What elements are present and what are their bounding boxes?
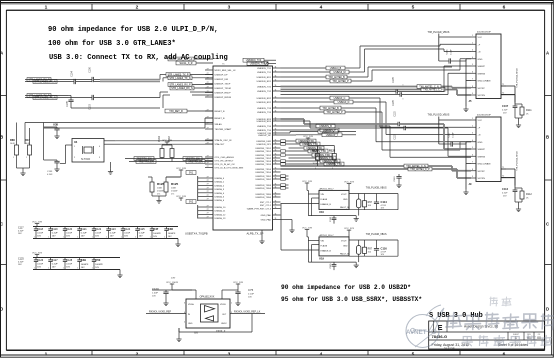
svg-text:TX8_ANTE0_P: TX8_ANTE0_P <box>332 80 349 83</box>
svg-text:ENABLE_B: ENABLE_B <box>321 250 332 253</box>
svg-text:1: 1 <box>164 237 165 239</box>
svg-text:TX8_ANTE2_B: TX8_ANTE2_B <box>322 107 339 110</box>
svg-text:11: 11 <box>275 100 277 102</box>
svg-text:77: 77 <box>207 82 209 84</box>
svg-text:GND_PAD: GND_PAD <box>261 219 272 222</box>
svg-text:C121: C121 <box>81 228 88 231</box>
svg-text:C105: C105 <box>393 100 395 106</box>
svg-text:USB2A_3: USB2A_3 <box>215 188 225 191</box>
svg-text:USB2A_12: USB2A_12 <box>215 213 227 216</box>
svg-text:VCC: VCC <box>478 37 483 39</box>
svg-text:4012310X10P: 4012310X10P <box>477 115 491 117</box>
svg-text:6: 6 <box>503 351 506 357</box>
svg-text:11: 11 <box>275 70 277 72</box>
svg-text:0.1UF: 0.1UF <box>52 263 59 265</box>
svg-text:1: 1 <box>472 35 473 37</box>
svg-text:2: 2 <box>136 5 139 11</box>
svg-text:6: 6 <box>472 154 473 156</box>
svg-text:GND_DRAIN: GND_DRAIN <box>478 163 491 166</box>
svg-text:VIN: VIN <box>321 241 325 243</box>
svg-text:VCC_1V8: VCC_1V8 <box>302 227 313 229</box>
svg-text:8: 8 <box>472 169 473 171</box>
svg-text:VCC_1V8: VCC_1V8 <box>162 140 173 142</box>
svg-text:USB2DN_TXE2: USB2DN_TXE2 <box>255 179 271 181</box>
svg-text:VIN: VIN <box>321 194 325 196</box>
svg-text:C128: C128 <box>66 259 73 262</box>
svg-text:4: 4 <box>320 5 323 11</box>
svg-text:1: 1 <box>92 237 93 239</box>
svg-text:3: 3 <box>472 50 473 52</box>
svg-text:USB2DN_B: USB2DN_B <box>319 125 332 128</box>
svg-text:A: A <box>546 51 549 56</box>
svg-text:OTG_HS_DETECT: OTG_HS_DETECT <box>215 161 235 163</box>
svg-text:C115: C115 <box>395 134 397 140</box>
svg-text:ALPB_TX_SP: ALPB_TX_SP <box>247 232 264 236</box>
svg-text:USB3DN_TX1: USB3DN_TX1 <box>257 72 272 74</box>
svg-text:11: 11 <box>275 66 277 68</box>
svg-text:1: 1 <box>150 237 151 239</box>
svg-text:USB3DN_TX0: USB3DN_TX0 <box>250 62 266 65</box>
svg-text:VCC_3V3: VCC_3V3 <box>32 252 43 254</box>
svg-text:USB2A_13: USB2A_13 <box>215 217 227 220</box>
svg-text:VCC_3V3: VCC_3V3 <box>344 228 355 230</box>
svg-text:OTG_ID_IN_AC_OK: OTG_ID_IN_AC_OK <box>215 163 236 166</box>
svg-text:11: 11 <box>275 75 277 77</box>
svg-text:11: 11 <box>275 149 277 151</box>
svg-text:16V: 16V <box>153 236 157 238</box>
svg-text:2: 2 <box>472 42 473 44</box>
svg-text:VCC_1V8: VCC_1V8 <box>176 168 187 170</box>
svg-text:11: 11 <box>275 195 277 197</box>
svg-text:10V: 10V <box>152 296 156 298</box>
svg-text:SV2: SV2 <box>189 201 194 204</box>
svg-text:77: 77 <box>207 209 209 211</box>
svg-text:TX8_DET_R: TX8_DET_R <box>169 110 183 113</box>
svg-text:16V: 16V <box>139 235 143 237</box>
svg-text:U6: U6 <box>194 331 198 335</box>
svg-text:1%: 1% <box>157 194 160 196</box>
svg-text:USB2DN_TXD2: USB2DN_TXD2 <box>255 158 271 160</box>
svg-text:FAULT_B: FAULT_B <box>340 206 349 209</box>
svg-text:USB3DN_RX3: USB3DN_RX3 <box>257 121 272 123</box>
svg-text:T1: T1 <box>502 84 504 86</box>
svg-text:77: 77 <box>207 138 209 140</box>
svg-text:STR_LANE3_RX_N: STR_LANE3_RX_N <box>171 87 193 90</box>
svg-text:IV-TXCO: IV-TXCO <box>81 159 90 161</box>
svg-text:11: 11 <box>275 213 277 215</box>
svg-text:GND: GND <box>343 246 348 248</box>
svg-text:SLK11_X_R: SLK11_X_R <box>180 62 193 65</box>
svg-text:XXXX_X: XXXX_X <box>216 330 226 333</box>
svg-text:6: 6 <box>472 71 473 73</box>
svg-text:_P: _P <box>477 127 481 129</box>
svg-text:USB2DN_TXD1: USB2DN_TXD1 <box>255 151 271 153</box>
svg-text:0.1UF: 0.1UF <box>18 261 24 263</box>
svg-text:C116: C116 <box>381 246 388 250</box>
svg-text:11: 11 <box>275 128 277 130</box>
svg-text:77: 77 <box>207 155 209 157</box>
svg-text:D: D <box>0 307 3 312</box>
svg-text:16V: 16V <box>95 235 99 237</box>
svg-text:USB3DN_RX2: USB3DN_RX2 <box>257 98 272 100</box>
svg-text:USB2UI_B: USB2UI_B <box>330 67 342 70</box>
svg-text:11: 11 <box>275 162 277 164</box>
svg-text:16V: 16V <box>52 235 56 237</box>
svg-text:USB2DN_DM1: USB2DN_DM1 <box>256 141 271 143</box>
svg-text:USB2DN_DP1: USB2DN_DP1 <box>257 144 272 146</box>
svg-text:XTALIN_OSC_IN: XTALIN_OSC_IN <box>215 139 232 142</box>
svg-text:TRST*RX_EN: TRST*RX_EN <box>138 161 153 164</box>
svg-text:4: 4 <box>320 351 323 357</box>
svg-text:77: 77 <box>207 180 209 182</box>
svg-text:T2: T2 <box>502 175 504 177</box>
svg-text:11: 11 <box>275 183 277 185</box>
svg-text:5: 5 <box>472 64 473 66</box>
svg-text:OTG_ID_B_OTG_MOB_SEN: OTG_ID_B_OTG_MOB_SEN <box>215 168 244 170</box>
svg-text:GND: GND <box>478 59 483 61</box>
svg-text:TX8_ANTE2_P: TX8_ANTE2_P <box>326 111 343 114</box>
svg-text:0.1UF: 0.1UF <box>502 193 508 195</box>
svg-text:FAULT_B: FAULT_B <box>340 253 349 256</box>
svg-text:XTALOUT: XTALOUT <box>215 143 226 146</box>
svg-text:D: D <box>546 307 549 312</box>
svg-text:16V: 16V <box>95 267 99 269</box>
svg-text:SSTXP: SSTXP <box>478 88 486 90</box>
svg-text:11: 11 <box>275 146 277 148</box>
svg-text:USB2UI_C: USB2UI_C <box>334 97 346 100</box>
svg-text:1: 1 <box>121 237 122 239</box>
svg-text:STR_LANE3_TX_N: STR_LANE3_TX_N <box>169 77 190 80</box>
svg-text:X4: X4 <box>74 140 78 144</box>
svg-text:R123: R123 <box>312 149 319 153</box>
svg-text:TX8_ANTE1_C_P: TX8_ANTE1_C_P <box>410 168 430 171</box>
svg-text:16V: 16V <box>168 236 172 238</box>
svg-text:C100: C100 <box>152 287 159 291</box>
svg-text:USB3DN_TX3: USB3DN_TX3 <box>257 108 272 110</box>
svg-text:1: 1 <box>77 268 78 270</box>
svg-text:11: 11 <box>275 106 277 108</box>
svg-text:C125: C125 <box>18 258 24 261</box>
svg-text:11: 11 <box>275 192 277 194</box>
svg-text:1: 1 <box>135 237 136 239</box>
svg-text:SSRXN: SSRXN <box>478 156 486 158</box>
svg-text:1000PF: 1000PF <box>81 264 89 266</box>
svg-text:77: 77 <box>207 159 209 161</box>
svg-text:C122: C122 <box>95 228 102 231</box>
svg-text:0.1UF: 0.1UF <box>124 232 131 234</box>
svg-text:16V: 16V <box>66 266 70 268</box>
svg-text:100K: 100K <box>157 188 163 190</box>
svg-text:VCC: VCC <box>478 120 483 122</box>
svg-text:C117: C117 <box>18 227 24 230</box>
svg-text:11: 11 <box>275 85 277 87</box>
svg-text:00: 00 <box>537 336 541 340</box>
svg-text:1: 1 <box>45 5 48 11</box>
svg-text:USB2A_6: USB2A_6 <box>215 199 225 202</box>
svg-text:1000PF: 1000PF <box>153 233 161 235</box>
svg-text:TESTER_START: TESTER_START <box>215 128 232 131</box>
svg-text:0.1UF: 0.1UF <box>66 232 73 234</box>
svg-text:3: 3 <box>472 133 473 135</box>
svg-text:95 ohm for USB 3.0 USB_SSRX*,: 95 ohm for USB 3.0 USB_SSRX*, USBSSTX* <box>281 296 422 303</box>
svg-text:2: 2 <box>472 125 473 127</box>
svg-text:1: 1 <box>472 118 473 120</box>
svg-text:0.1UF: 0.1UF <box>81 232 88 234</box>
svg-text:R97: R97 <box>368 248 373 251</box>
svg-text:RST_CTL1: RST_CTL1 <box>260 202 272 204</box>
svg-text:U19: U19 <box>319 256 324 260</box>
svg-text:78436-G: 78436-G <box>432 334 448 339</box>
svg-text:GND: GND <box>343 199 348 201</box>
svg-text:16V: 16V <box>37 235 41 237</box>
svg-text:SSRXP: SSRXP <box>478 66 486 68</box>
svg-text:USB2DN_TXE3: USB2DN_TXE3 <box>255 185 271 187</box>
svg-text:R86: R86 <box>10 138 15 142</box>
svg-text:VCC_1V8: VCC_1V8 <box>302 181 313 183</box>
svg-text:USB3UP_TXDP: USB3UP_TXDP <box>215 84 231 86</box>
svg-text:16V: 16V <box>81 267 85 269</box>
svg-text:USB2A_5: USB2A_5 <box>215 196 225 199</box>
svg-text:C112: C112 <box>502 187 509 191</box>
svg-text:1: 1 <box>92 268 93 270</box>
svg-text:11: 11 <box>275 170 277 172</box>
svg-text:_P: _P <box>477 44 481 46</box>
svg-text:OTG_CHG_ANGLE: OTG_CHG_ANGLE <box>215 156 235 159</box>
svg-text:C48: C48 <box>168 227 174 231</box>
svg-text:USB2DN_TXD3: USB2DN_TXD3 <box>255 161 271 163</box>
svg-text:C123: C123 <box>110 228 117 231</box>
svg-text:R111: R111 <box>526 109 532 112</box>
svg-text:RESET_B: RESET_B <box>215 111 226 113</box>
svg-text:11: 11 <box>275 203 277 205</box>
svg-text:4: 4 <box>472 140 473 142</box>
svg-text:USB3DN_TX4: USB3DN_TX4 <box>257 130 272 132</box>
svg-text:77: 77 <box>207 166 209 168</box>
svg-text:R126: R126 <box>157 182 165 186</box>
svg-text:C119: C119 <box>52 228 58 231</box>
svg-text:3: 3 <box>228 351 231 357</box>
svg-text:B: B <box>0 135 3 140</box>
svg-text:C47: C47 <box>153 227 159 231</box>
svg-text:11: 11 <box>275 186 277 188</box>
svg-text:C124: C124 <box>124 228 131 231</box>
svg-text:SSRXP: SSRXP <box>478 149 486 151</box>
svg-text:VCC_1V8: VCC_1V8 <box>303 136 314 138</box>
svg-text:1: 1 <box>45 351 48 357</box>
svg-text:6: 6 <box>503 5 506 11</box>
svg-text:C118: C118 <box>37 228 43 231</box>
svg-text:C126: C126 <box>37 259 44 262</box>
svg-text:5: 5 <box>412 5 415 11</box>
svg-text:1: 1 <box>403 99 405 100</box>
svg-text:FLAGB: FLAGB <box>321 198 328 201</box>
svg-text:SSTXN: SSTXN <box>478 95 486 97</box>
svg-text:1: 1 <box>63 237 64 239</box>
svg-text:1%: 1% <box>171 194 174 196</box>
svg-text:GAME_PTR_RST_CTL3: GAME_PTR_RST_CTL3 <box>247 208 272 211</box>
svg-text:11: 11 <box>275 177 277 179</box>
svg-text:_N: _N <box>477 52 481 54</box>
svg-text:1: 1 <box>13 157 14 159</box>
svg-text:R122: R122 <box>329 149 336 153</box>
svg-text:USB2DN_TXE1: USB2DN_TXE1 <box>255 176 271 178</box>
svg-text:90 ohm impedance for USB 2.0 U: 90 ohm impedance for USB 2.0 ULPI_D_P/N, <box>48 26 218 34</box>
svg-text:90 ohm impedance for USB 2.0 U: 90 ohm impedance for USB 2.0 USB2D* <box>281 284 411 291</box>
svg-text:VCC_1V8: VCC_1V8 <box>233 282 244 284</box>
svg-text:10V: 10V <box>248 297 252 299</box>
svg-text:GND: GND <box>478 142 483 144</box>
svg-text:USB3UP_RXDM: USB3UP_RXDM <box>215 97 232 99</box>
svg-text:11: 11 <box>275 156 277 158</box>
svg-text:USB2UI_D: USB2UI_D <box>338 101 350 104</box>
svg-text:11: 11 <box>275 167 277 169</box>
svg-text:OPA1611XXX: OPA1611XXX <box>200 296 215 299</box>
svg-text:AP2161_WG-7: AP2161_WG-7 <box>320 188 335 191</box>
svg-text:16V: 16V <box>52 266 56 268</box>
svg-text:USB2A_10: USB2A_10 <box>215 206 227 209</box>
svg-text:77: 77 <box>207 184 209 186</box>
svg-text:C115: C115 <box>447 49 449 55</box>
svg-text:4012310X10P: 4012310X10P <box>477 32 491 34</box>
svg-text:USB3DN_TX3: USB3DN_TX3 <box>257 112 272 114</box>
svg-text:GND_PAD: GND_PAD <box>261 214 272 217</box>
svg-text:C107: C107 <box>502 104 509 108</box>
svg-text:USB2DN_TXD4: USB2DN_TXD4 <box>255 172 271 174</box>
svg-text:C: C <box>0 222 3 227</box>
svg-text:9: 9 <box>472 176 473 178</box>
svg-text:USB2DN_TXD2: USB2DN_TXD2 <box>255 155 271 157</box>
svg-text:USB3DN_TX2: USB3DN_TX2 <box>257 91 272 93</box>
svg-text:11: 11 <box>275 110 277 112</box>
svg-text:VCC_3V3: VCC_3V3 <box>344 181 355 183</box>
svg-text:AP2161_WG-7: AP2161_WG-7 <box>320 234 335 237</box>
svg-text:11: 11 <box>275 159 277 161</box>
svg-text:C104: C104 <box>72 71 74 77</box>
svg-text:RESET_B: RESET_B <box>215 118 226 120</box>
svg-text:R144: R144 <box>159 136 161 142</box>
svg-text:RXXXX_VXXD_REF_LK: RXXXX_VXXD_REF_LK <box>234 311 261 314</box>
svg-text:SSTXN: SSTXN <box>478 178 486 180</box>
svg-text:R125: R125 <box>171 182 179 186</box>
svg-text:0.1UF: 0.1UF <box>52 232 59 234</box>
svg-text:C103: C103 <box>90 104 92 110</box>
svg-text:100K: 100K <box>171 188 177 190</box>
svg-text:USB3UP_RXDP: USB3UP_RXDP <box>215 93 232 95</box>
svg-text:STR_LANE3_RX_N: STR_LANE3_RX_N <box>34 81 56 84</box>
svg-text:C110: C110 <box>394 176 396 182</box>
svg-text:USB2DN_TXE4: USB2DN_TXE4 <box>255 188 271 190</box>
svg-text:USB2UI_M: USB2UI_M <box>334 71 346 74</box>
svg-text:2: 2 <box>136 351 139 357</box>
svg-text:11: 11 <box>275 174 277 176</box>
svg-text:AVNET: AVNET <box>406 329 427 336</box>
svg-text:VOUT: VOUT <box>341 194 347 196</box>
svg-text:77: 77 <box>207 213 209 215</box>
svg-text:VCC_OSC8: VCC_OSC8 <box>166 282 179 284</box>
svg-text:77: 77 <box>207 199 209 201</box>
svg-text:5: 5 <box>412 351 415 357</box>
svg-text:GND: GND <box>188 323 193 325</box>
svg-text:Tue 3 0 hub: Tue 3 0 hub <box>444 347 455 349</box>
svg-text:USB2DN_TXE5: USB2DN_TXE5 <box>255 194 271 196</box>
svg-text:16V: 16V <box>66 235 70 237</box>
svg-text:TX8_PLUGB_VBUS: TX8_PLUGB_VBUS <box>366 188 387 190</box>
svg-text:1: 1 <box>403 85 405 86</box>
svg-text:0.1UF: 0.1UF <box>248 294 255 296</box>
svg-text:T2: T2 <box>502 92 504 94</box>
svg-text:SSTXP: SSTXP <box>478 171 486 173</box>
svg-text:5: 5 <box>472 147 473 149</box>
svg-text:C49: C49 <box>81 258 87 262</box>
svg-text:11: 11 <box>275 89 277 91</box>
svg-text:VDDB: VDDB <box>220 304 226 306</box>
svg-text:C105: C105 <box>393 77 395 83</box>
svg-text:77: 77 <box>207 176 209 178</box>
svg-text:11: 11 <box>275 96 277 98</box>
svg-text:USB3DN_RX1: USB3DN_RX1 <box>257 77 272 79</box>
svg-text:11: 11 <box>275 133 277 135</box>
svg-text:77: 77 <box>207 191 209 193</box>
svg-text:USB2A_0: USB2A_0 <box>215 177 225 180</box>
svg-text:R97: R97 <box>368 201 373 204</box>
svg-text:1: 1 <box>34 268 35 270</box>
svg-text:0.1UF: 0.1UF <box>502 110 508 112</box>
svg-text:C117: C117 <box>449 132 451 138</box>
svg-text:GND2: GND2 <box>221 323 227 325</box>
svg-text:0.1UF: 0.1UF <box>453 132 455 138</box>
svg-text:11: 11 <box>275 79 277 81</box>
svg-text:11: 11 <box>275 200 277 202</box>
svg-text:C50: C50 <box>95 258 101 262</box>
svg-text:C75: C75 <box>248 288 254 292</box>
svg-text:USB3DN_RX2: USB3DN_RX2 <box>257 102 272 104</box>
svg-text:77: 77 <box>207 127 209 129</box>
svg-text:77: 77 <box>207 162 209 164</box>
svg-text:VDDA: VDDA <box>188 303 194 306</box>
svg-text:1: 1 <box>34 237 35 239</box>
svg-text:1.8V: 1.8V <box>171 277 176 279</box>
svg-text:16V: 16V <box>81 235 85 237</box>
svg-text:RST_CTL2: RST_CTL2 <box>260 205 272 207</box>
svg-text:C106: C106 <box>90 67 92 73</box>
svg-text:1: 1 <box>26 157 27 159</box>
svg-text:11: 11 <box>275 218 277 220</box>
svg-text:7: 7 <box>472 162 473 164</box>
svg-text:0.1UF: 0.1UF <box>110 232 117 234</box>
svg-text:C120: C120 <box>66 228 73 231</box>
svg-text:B: B <box>546 135 549 140</box>
svg-text:0.1UF: 0.1UF <box>66 263 73 265</box>
svg-text:100 ohm for USB 3.0 GTR_LANE3*: 100 ohm for USB 3.0 GTR_LANE3* <box>48 40 176 48</box>
svg-text:9: 9 <box>472 93 473 95</box>
svg-text:1.0UF: 1.0UF <box>152 293 159 295</box>
svg-text:USB2UP_DP: USB2UP_DP <box>258 135 272 137</box>
svg-text:VCC_1V8: VCC_1V8 <box>176 196 187 198</box>
svg-text:C125: C125 <box>139 228 146 231</box>
svg-text:0.1UF: 0.1UF <box>139 232 146 234</box>
svg-text:0.1UF: 0.1UF <box>95 232 102 234</box>
svg-text:C133: C133 <box>47 171 53 173</box>
svg-text:8: 8 <box>472 86 473 88</box>
svg-text:C115: C115 <box>395 111 397 117</box>
svg-text:MXXX_REF_SEL_LK: MXXX_REF_SEL_LK <box>170 58 193 61</box>
svg-text:11: 11 <box>275 119 277 121</box>
svg-text:SSRXN: SSRXN <box>478 73 486 75</box>
svg-text:USB2A_2: USB2A_2 <box>215 184 225 187</box>
svg-text:MXXX_REF_SEL_LK: MXXX_REF_SEL_LK <box>215 70 237 72</box>
svg-text:USB2A_4: USB2A_4 <box>215 192 225 195</box>
svg-text:FLAGB: FLAGB <box>321 245 328 248</box>
